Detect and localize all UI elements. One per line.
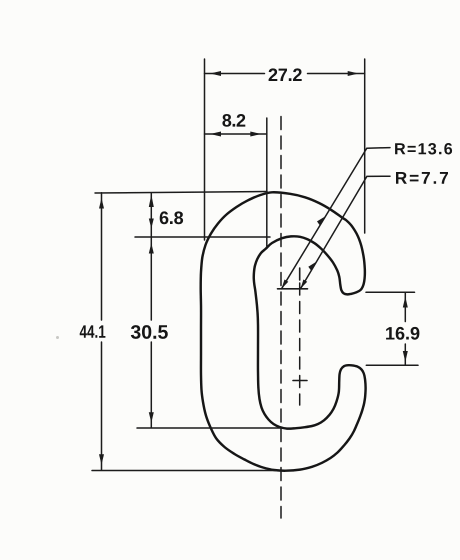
- arrowhead at R=13.6 leader end: [282, 280, 289, 289]
- dimension line 16.9 upper segment: [404, 293, 406, 322]
- dimension line 27.2 left segment: [205, 73, 265, 75]
- extension line inner-top of slot: [135, 236, 270, 238]
- dim text R=13.6: [395, 143, 452, 155]
- dim text 8.2: [222, 114, 245, 127]
- extension line left of 27.2 dim: [204, 59, 206, 240]
- arrowhead 27.2 left: [210, 71, 221, 76]
- vertical centreline (dashed): [280, 117, 282, 519]
- centre mark vertical tick: [299, 268, 301, 280]
- dimension line 30.5 upper segment: [150, 237, 152, 320]
- dimension line 6.8: [150, 193, 152, 237]
- arrowhead 16.9 bottom: [403, 351, 408, 362]
- arrowhead 8.2 left: [210, 132, 221, 137]
- extension line right of 8.2 dim: [266, 118, 268, 246]
- secondary centreline (dashed): [299, 283, 301, 405]
- leader line R=13.6: [282, 148, 391, 289]
- extension line right of 27.2 dim: [364, 59, 366, 233]
- arrowhead 30.5 bottom: [149, 412, 154, 423]
- arrowhead 30.5 top: [149, 243, 154, 254]
- extension line upper jaw: [366, 291, 415, 293]
- arrowhead on R=13.6 leader: [317, 216, 326, 226]
- extension line top of part: [95, 192, 267, 194]
- dimension line 44.1 lower segment: [101, 342, 103, 470]
- arrowhead 44.1 bottom: [99, 454, 104, 465]
- dimension line 44.1 upper segment: [101, 193, 103, 320]
- arrowhead 44.1 top: [99, 198, 104, 209]
- arrowhead 16.9 top: [403, 297, 408, 308]
- dim text 30.5: [131, 325, 168, 339]
- dim text 16.9: [386, 327, 419, 340]
- dim text 27.2: [269, 68, 302, 81]
- dimension line 30.5 lower segment: [150, 342, 152, 427]
- arrowhead 6.8 top: [149, 195, 154, 208]
- dimension line 16.9 lower segment: [404, 344, 406, 365]
- extension line bottom of part: [92, 470, 276, 472]
- leader line R=7.7: [301, 176, 391, 289]
- faint scan speck: [56, 336, 59, 339]
- dim text 6.8: [160, 211, 183, 224]
- arrowhead at R=7.7 leader end: [301, 280, 308, 289]
- dimension line 8.2: [205, 133, 267, 135]
- dim text 44.1: [80, 325, 106, 337]
- dim text R=7.7: [396, 172, 448, 184]
- arrowhead on R=7.7 leader: [308, 261, 317, 271]
- arrowhead 27.2 right: [348, 71, 359, 76]
- C-shaped part outline: [201, 192, 366, 470]
- arrowhead 6.8 bottom: [149, 219, 154, 229]
- dimension line 27.2 right segment: [308, 73, 365, 75]
- extension line lower jaw: [366, 364, 418, 366]
- extension line bottom of slot: [137, 427, 281, 429]
- centre mark horizontal tick: [278, 288, 308, 290]
- arrowhead 8.2 right: [250, 132, 261, 137]
- lower slot centre tick: [293, 380, 307, 382]
